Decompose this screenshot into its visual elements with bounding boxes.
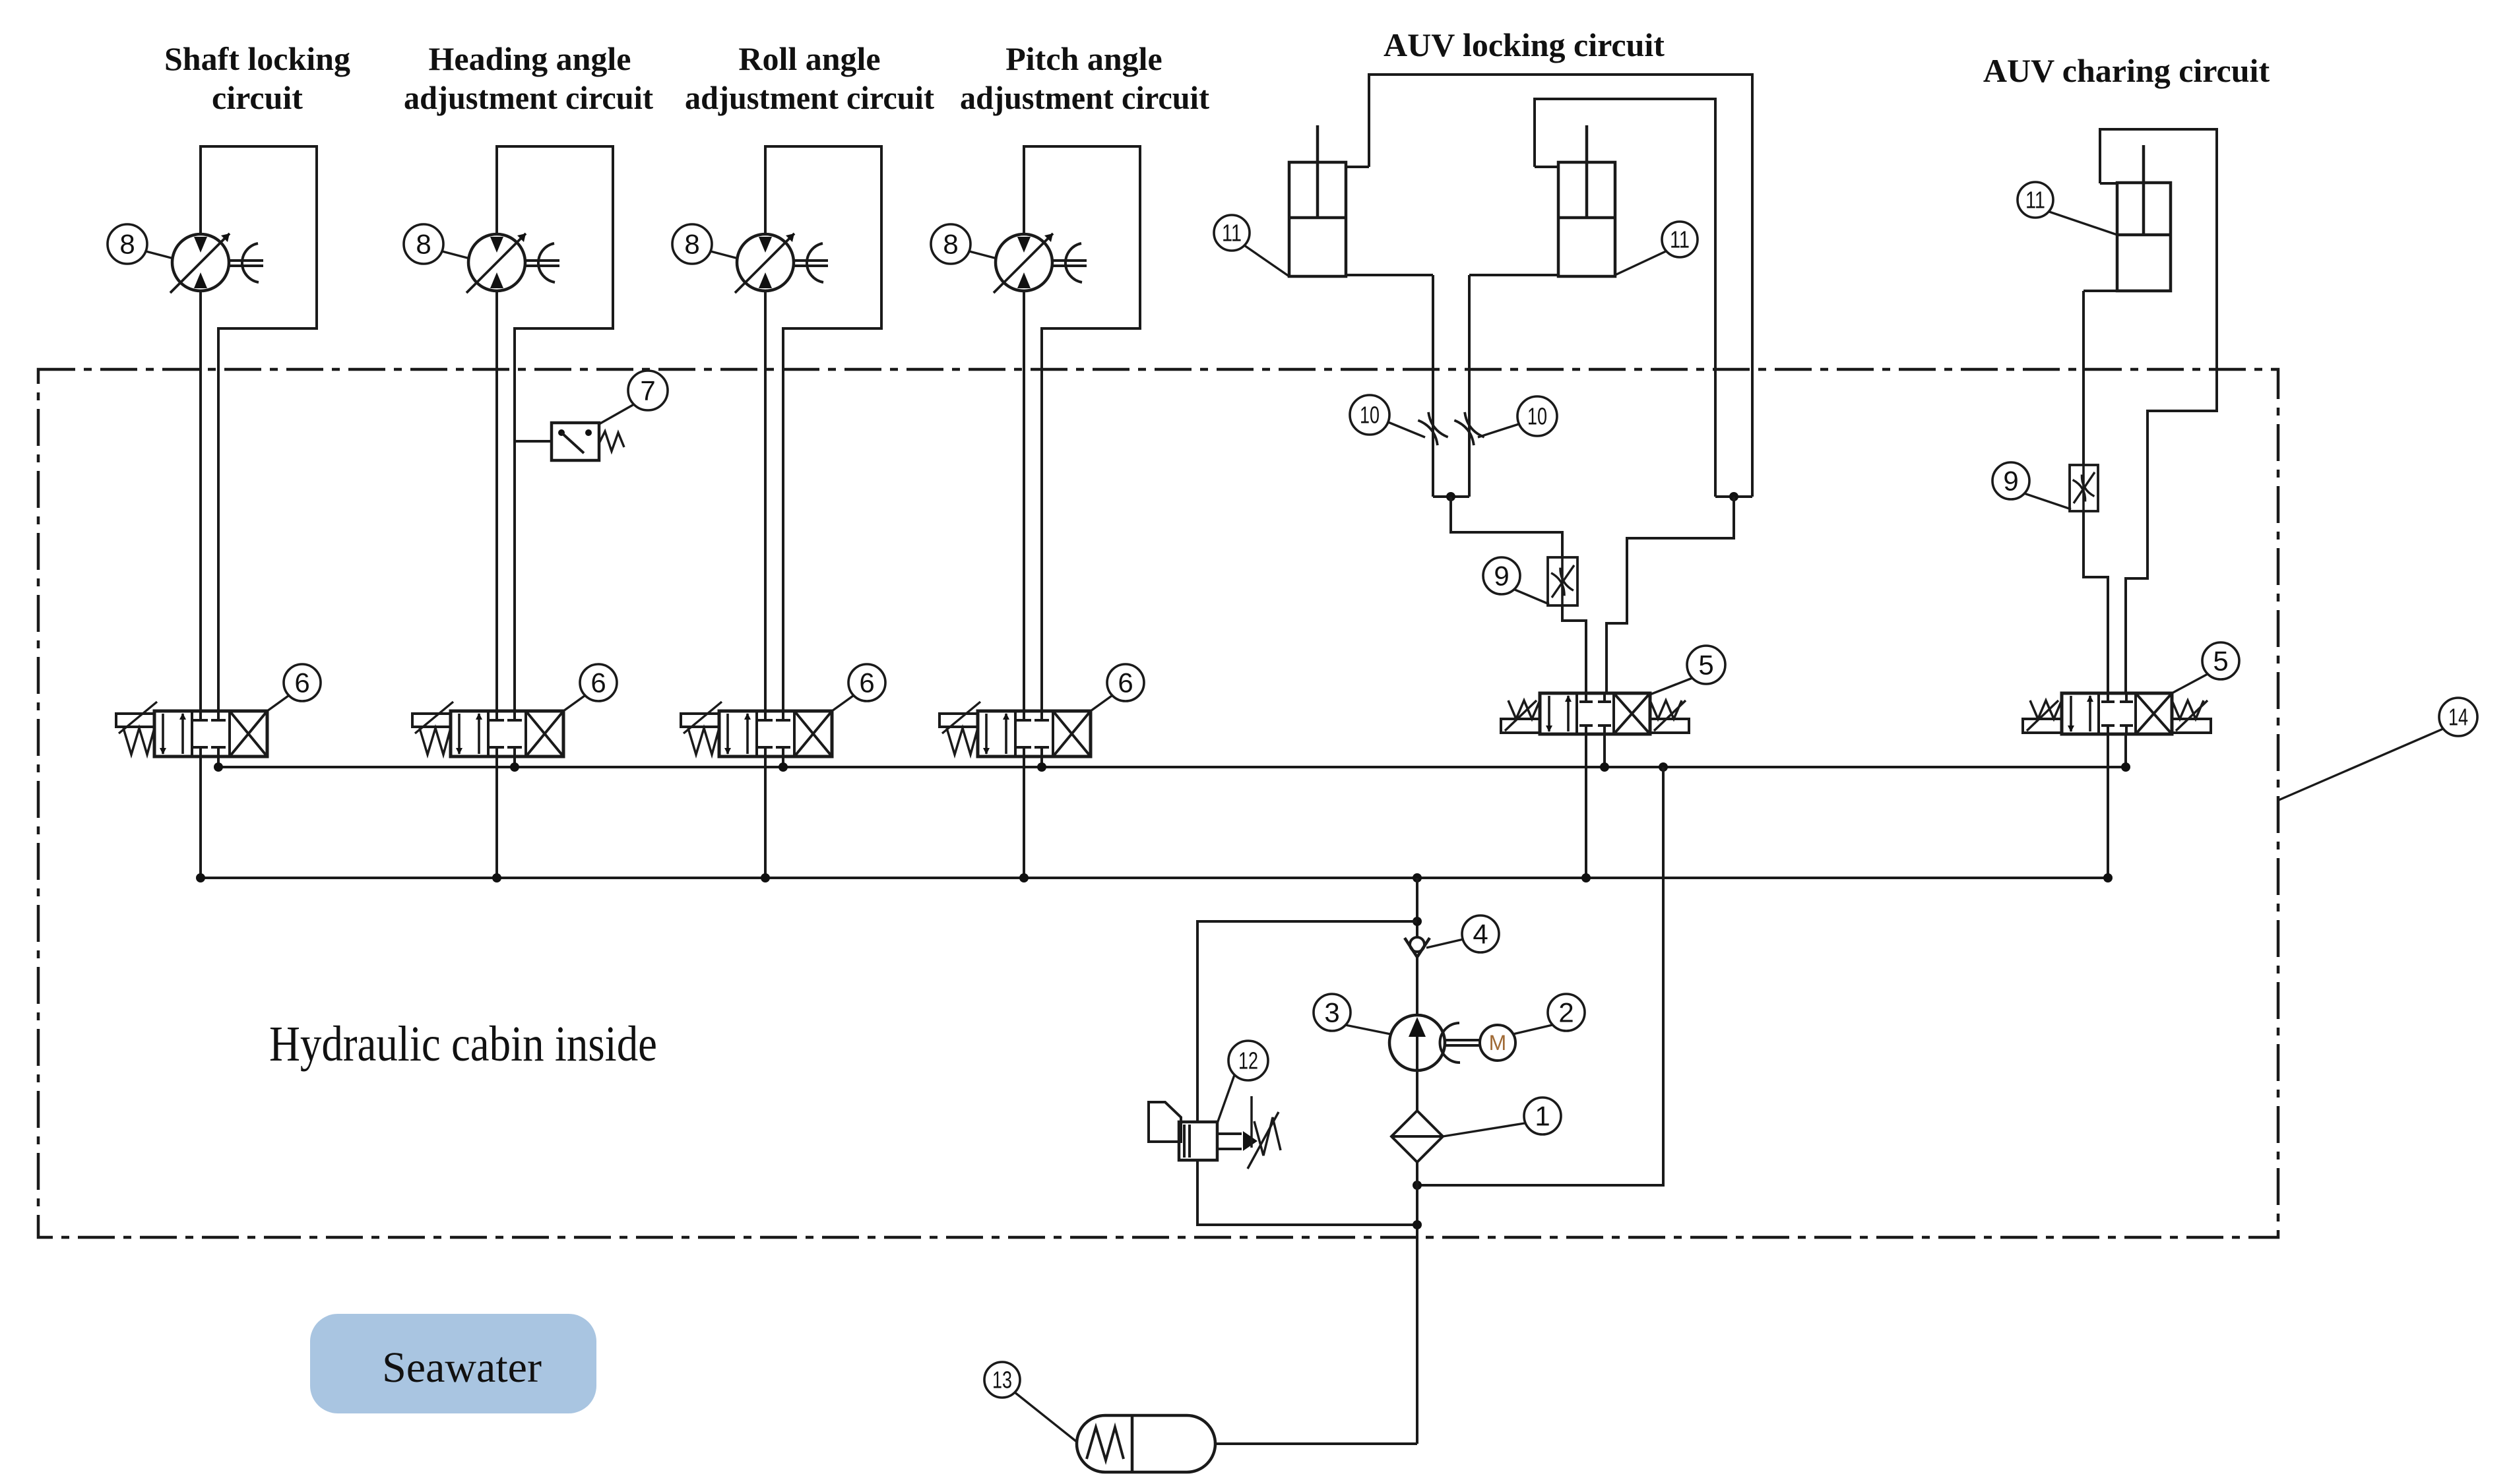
wire: valve 5 charing A-port to pressure line	[2107, 733, 2109, 878]
valve 6 (roll angle) right square crossed flow	[794, 711, 832, 757]
hydraulic motor 8 (heading angle)	[468, 234, 525, 291]
wire: valve 6 (roll angle) B-port down to return line	[782, 757, 784, 767]
label circle 11 (left)	[1214, 215, 1250, 251]
wire: shaft locking motor to valve	[199, 290, 202, 711]
electric motor 2	[1480, 1025, 1515, 1061]
label circle 13	[984, 1362, 1020, 1398]
pointer line to cylinder 11 right	[1615, 251, 1666, 275]
junction: return bus at roll valve	[779, 762, 788, 772]
cylinder 11 (AUV charing)	[2117, 183, 2171, 291]
directional valve 6 (roll angle) body	[719, 711, 832, 757]
wire: right cylinder cap-side down	[1469, 274, 1558, 276]
valve 6 (shaft locking) solenoid	[116, 714, 154, 727]
directional valve 5 (AUV locking) body	[1540, 693, 1650, 734]
filter 1	[1391, 1111, 1443, 1162]
wire: merged rod-side to valve 5	[1606, 497, 1734, 693]
label circle 1	[1524, 1098, 1561, 1134]
svg-text:8: 8	[684, 228, 699, 259]
wire: return bus line	[218, 766, 2126, 768]
wire: right cylinder rod-side port	[1535, 166, 1558, 168]
svg-text:Roll angle: Roll angle	[738, 40, 880, 77]
pointer line to valve 6 (roll angle)	[832, 696, 853, 711]
junction: rod-side merge	[1729, 492, 1738, 501]
valve 6 (pitch angle) return spring	[947, 728, 978, 755]
wire: cap-side lines merge	[1433, 495, 1469, 498]
label circle 8 (pitch angle)	[931, 224, 970, 264]
wire: throttle 9 charing to valve 5 P-port	[2084, 511, 2108, 693]
relief valve 12 outlet arrow	[1217, 1132, 1242, 1135]
throttle valve 10 (right)	[1454, 412, 1484, 445]
relief valve 12 adjustable spring	[1250, 1096, 1253, 1148]
junction: pressure bus at pump feed	[1413, 873, 1422, 882]
Seawater zone box	[310, 1314, 596, 1413]
directional valve 5 (AUV charing) body	[2062, 693, 2172, 734]
directional valve 6 (pitch angle) body	[978, 711, 1091, 757]
svg-text:11: 11	[1670, 226, 1690, 253]
junction: return bus at heading valve	[510, 762, 519, 772]
wire: heading angle motor to valve	[495, 290, 498, 711]
svg-text:Seawater: Seawater	[382, 1344, 542, 1392]
valve 6 (shaft locking) left square flow arrows	[162, 714, 164, 754]
svg-text:12: 12	[1238, 1047, 1258, 1074]
wire: charing cylinder cap-side down	[2084, 290, 2117, 292]
wire: return drop to pump suction	[1417, 767, 1663, 1185]
valve 5 (AUV charing) left square flow arrows	[2070, 696, 2072, 731]
svg-text:circuit: circuit	[212, 79, 303, 116]
svg-text:adjustment circuit: adjustment circuit	[685, 79, 934, 116]
valve 5 (AUV charing) left spring	[2030, 700, 2062, 719]
label circle 4	[1462, 915, 1499, 952]
label circle 10 (left)	[1350, 395, 1389, 435]
junction: pressure bus at charing valve	[2103, 873, 2113, 882]
valve 5 (AUV charing) left solenoid	[2023, 719, 2062, 733]
label circle 8 (heading angle)	[404, 224, 443, 264]
hydraulic motor 8 (roll angle)	[737, 234, 794, 291]
wire: valve 5 locking B-port to return line	[1603, 734, 1606, 767]
throttle valve 9 (AUV locking)	[1548, 557, 1577, 605]
svg-text:8: 8	[416, 228, 431, 259]
throttle valve 10 (left)	[1418, 412, 1447, 445]
label circle 11 (right)	[1662, 222, 1698, 257]
label circle 6 (roll angle)	[848, 664, 885, 701]
pointer line to filter 1	[1443, 1123, 1525, 1136]
label circle 10 (right)	[1517, 396, 1557, 436]
valve 6 (shaft locking) middle square blocked ports	[199, 711, 202, 720]
wire: accumulator connection	[1215, 1442, 1417, 1445]
directional valve 6 (heading angle) body	[451, 711, 563, 757]
wire: valve 5 charing B-port to return line	[2124, 733, 2127, 767]
pointer line to throttle 10 right	[1478, 424, 1519, 437]
junction: cap-side merge	[1446, 492, 1455, 501]
valve 6 (heading angle) return spring	[420, 728, 451, 755]
svg-text:AUV charing circuit: AUV charing circuit	[1983, 52, 2270, 89]
svg-text:7: 7	[640, 375, 655, 406]
pointer line to valve 5 locking	[1650, 678, 1692, 695]
wire: valve 6 (heading angle) B-port down to return line	[513, 757, 516, 767]
svg-text:11: 11	[2025, 186, 2045, 213]
svg-text:5: 5	[2213, 645, 2228, 676]
electric motor 2 shaft	[1445, 1039, 1480, 1041]
svg-text:10: 10	[1360, 401, 1380, 428]
valve 5 (AUV locking) right square crossed flow	[1614, 693, 1650, 734]
wire: suction line down to accumulator	[1416, 1162, 1418, 1444]
svg-text:4: 4	[1473, 918, 1488, 949]
pointer line to motor 8 (pitch angle)	[969, 251, 997, 259]
pointer line to relief valve 12	[1217, 1075, 1234, 1123]
label circle 6 (shaft locking)	[284, 664, 321, 701]
label circle 5 (charing)	[2202, 642, 2239, 679]
junction: return bus at pitch valve	[1037, 762, 1046, 772]
svg-text:1: 1	[1535, 1100, 1550, 1131]
valve 6 (pitch angle) left square flow arrows	[985, 714, 988, 754]
hydraulic motor 8 (pitch angle)	[996, 234, 1052, 291]
pointer line to cabin border 14	[2279, 729, 2443, 800]
junction: return bus at shaft valve	[214, 762, 223, 772]
valve 5 (AUV charing) right spring	[2172, 700, 2204, 719]
wire: relief branch top	[1197, 921, 1417, 1122]
svg-text:8: 8	[119, 228, 135, 259]
label circle 6 (pitch angle)	[1107, 664, 1144, 701]
pointer line to valve 6 (pitch angle)	[1091, 696, 1112, 711]
valve 6 (roll angle) solenoid	[681, 714, 719, 727]
wire: pitch angle motor loop	[1024, 146, 1140, 711]
valve 6 (roll angle) middle square blocked ports	[764, 711, 767, 720]
svg-text:2: 2	[1558, 997, 1574, 1028]
junction: relief branch tee	[1413, 917, 1422, 926]
junction: pressure bus at roll valve	[761, 873, 770, 882]
svg-text:14: 14	[2448, 703, 2468, 730]
pump 3	[1389, 1015, 1445, 1070]
wire: valve 5 locking A-port to pressure line	[1585, 734, 1587, 878]
pressure switch 7	[552, 423, 599, 460]
svg-text:8: 8	[943, 228, 958, 259]
label circle 5 (locking)	[1687, 646, 1725, 684]
label circle 3	[1314, 994, 1351, 1031]
valve 6 (roll angle) left square flow arrows	[726, 714, 729, 754]
pointer line to motor 8 (heading angle)	[442, 251, 470, 259]
valve 6 (heading angle) left square flow arrows	[458, 714, 461, 754]
valve 6 (roll angle) return spring	[688, 728, 719, 755]
svg-text:6: 6	[1118, 667, 1133, 698]
pointer line to accumulator 13	[1015, 1392, 1077, 1442]
pointer line to throttle 9 locking	[1515, 590, 1549, 604]
svg-text:Hydraulic cabin inside: Hydraulic cabin inside	[269, 1016, 657, 1072]
svg-text:13: 13	[992, 1366, 1012, 1393]
label circle 11 (charing)	[2018, 182, 2053, 218]
valve 5 (AUV charing) right solenoid	[2172, 719, 2211, 733]
valve 5 (AUV locking) right spring	[1650, 700, 1682, 719]
valve 6 (shaft locking) right square crossed flow	[230, 711, 267, 757]
wire: left cylinder cap-side down	[1346, 274, 1433, 276]
label circle 7	[628, 371, 668, 410]
pointer line to motor 8 (roll angle)	[711, 251, 738, 259]
pointer line to cylinder 11 left	[1244, 245, 1289, 276]
svg-text:Shaft locking: Shaft locking	[164, 40, 350, 77]
label circle 8 (roll angle)	[672, 224, 712, 264]
valve 6 (heading angle) middle square blocked ports	[495, 711, 498, 720]
svg-text:6: 6	[859, 667, 874, 698]
svg-text:adjustment circuit: adjustment circuit	[960, 79, 1209, 116]
wire: valve 6 (roll angle) A-port down to pressure line	[764, 757, 767, 878]
wire: heading angle motor loop	[497, 146, 613, 711]
relief valve 12 body	[1179, 1122, 1217, 1160]
pointer line to throttle 9 charing	[2024, 493, 2071, 509]
svg-text:11: 11	[1222, 219, 1242, 246]
junction: pressure bus at pitch valve	[1019, 873, 1029, 882]
svg-text:AUV locking circuit: AUV locking circuit	[1384, 26, 1665, 63]
junction: pressure bus at heading valve	[492, 873, 501, 882]
svg-text:3: 3	[1324, 997, 1339, 1028]
pointer line to pressure switch 7	[599, 404, 634, 424]
svg-text:9: 9	[2003, 465, 2018, 496]
pointer line to cylinder 11 charing	[2049, 212, 2117, 235]
pressure switch 7 spring	[599, 431, 624, 451]
label circle 2	[1548, 994, 1585, 1031]
pointer line to motor 2	[1513, 1025, 1552, 1034]
wire: roll angle motor to valve	[764, 290, 767, 711]
hydraulic motor 8 (shaft locking)	[172, 234, 229, 291]
junction: pressure bus at shaft valve	[196, 873, 205, 882]
valve 6 (heading angle) solenoid	[412, 714, 451, 727]
valve 5 (AUV locking) left square flow arrows	[1548, 696, 1550, 731]
label circle 14	[2439, 698, 2477, 736]
wire: pump suction from filter	[1416, 1070, 1418, 1111]
label circle 9 (charing)	[1992, 462, 2029, 499]
svg-text:adjustment circuit: adjustment circuit	[404, 79, 653, 116]
wire: branch to pressure switch 7	[515, 440, 552, 443]
wire: pitch angle motor to valve	[1023, 290, 1025, 711]
svg-text:10: 10	[1527, 402, 1547, 429]
wire: rod-side manifold merge	[1715, 495, 1752, 498]
svg-text:Pitch angle: Pitch angle	[1005, 40, 1162, 77]
wire: relief valve outlet	[1197, 1160, 1417, 1225]
label circle 6 (heading angle)	[580, 664, 617, 701]
valve 6 (pitch angle) right square crossed flow	[1053, 711, 1091, 757]
pointer line to valve 6 (shaft locking)	[267, 696, 288, 711]
pointer line to motor 8 (shaft locking)	[146, 251, 174, 259]
wire: charing cylinder rod-side port	[2100, 182, 2117, 185]
pointer line to valve 6 (heading angle)	[563, 696, 585, 711]
svg-text:6: 6	[294, 667, 309, 698]
wire: valve 6 (pitch angle) B-port down to return line	[1040, 757, 1043, 767]
wire: shaft locking motor loop	[201, 146, 317, 711]
wire: pressure bus line	[201, 877, 2108, 879]
valve 6 (shaft locking) return spring	[123, 728, 154, 755]
wire: valve 6 (shaft locking) B-port down to return line	[217, 757, 220, 767]
wire: throttle 9 to valve 5 P-port	[1562, 605, 1586, 693]
accumulator 13	[1077, 1415, 1215, 1472]
valve 5 (AUV locking) left spring	[1508, 700, 1540, 719]
label circle 9 (locking)	[1483, 557, 1520, 594]
valve 6 (pitch angle) middle square blocked ports	[1023, 711, 1025, 720]
svg-text:M: M	[1489, 1031, 1507, 1055]
pointer line to check valve 4	[1426, 939, 1463, 948]
hydraulic cabin border (dash-dot box)	[38, 369, 2278, 1237]
wire: valve 6 (shaft locking) A-port down to pressure line	[199, 757, 202, 878]
wire: AUV locking inner manifold	[1535, 99, 1715, 497]
wire: valve 6 (pitch angle) A-port down to pressure line	[1023, 757, 1025, 878]
svg-text:6: 6	[590, 667, 606, 698]
valve 5 (AUV locking) left solenoid	[1501, 719, 1540, 733]
label circle 8 (shaft locking)	[108, 224, 147, 264]
wire: AUV locking top manifold	[1369, 75, 1752, 497]
relief valve 12 pilot tab	[1149, 1102, 1181, 1142]
throttle valve 9 (charing)	[2070, 465, 2098, 511]
label circle 12	[1228, 1041, 1268, 1080]
wire: valve 6 (heading angle) A-port down to pressure line	[495, 757, 498, 878]
directional valve 6 (shaft locking) body	[154, 711, 267, 757]
junction: return bus at charing valve	[2121, 762, 2130, 772]
check valve 4	[1410, 937, 1424, 952]
pointer line to throttle 10 left	[1388, 422, 1425, 437]
wire: check valve to pump	[1416, 957, 1418, 1015]
valve 6 (pitch angle) solenoid	[939, 714, 978, 727]
cylinder 11 (AUV locking right)	[1558, 162, 1615, 276]
pointer line to pump 3	[1345, 1025, 1391, 1034]
valve 5 (AUV locking) middle square blocked ports	[1585, 693, 1587, 702]
junction: return bus to pump drop	[1659, 762, 1668, 772]
junction: relief return tee	[1413, 1220, 1422, 1229]
svg-text:5: 5	[1698, 649, 1713, 680]
valve 5 (AUV locking) right solenoid	[1650, 719, 1689, 733]
cylinder 11 (AUV locking left)	[1289, 162, 1346, 276]
junction: suction line tee	[1413, 1181, 1422, 1190]
svg-text:Heading angle: Heading angle	[429, 40, 631, 77]
svg-text:9: 9	[1494, 560, 1509, 591]
wire: charing top loop	[2100, 129, 2217, 693]
junction: return bus at locking valve	[1600, 762, 1609, 772]
wire: pump pressure riser	[1416, 878, 1418, 937]
junction: pressure bus at locking valve	[1581, 873, 1591, 882]
wire: roll angle motor loop	[765, 146, 881, 711]
wire: merged cap-side to throttle 9	[1451, 497, 1562, 557]
valve 6 (heading angle) right square crossed flow	[526, 711, 563, 757]
wire: left cylinder rod-side port	[1346, 166, 1369, 168]
pointer line to valve 5 charing	[2172, 674, 2208, 693]
valve 5 (AUV charing) middle square blocked ports	[2107, 693, 2109, 702]
valve 5 (AUV charing) right square crossed flow	[2136, 693, 2172, 734]
